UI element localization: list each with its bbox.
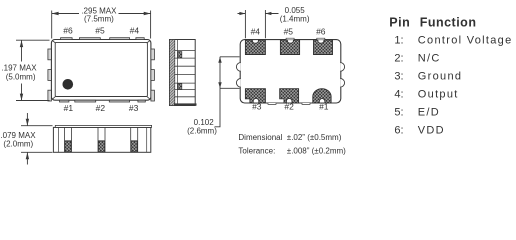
pad #1 (bottom view, hatched dome) xyxy=(313,89,331,103)
side view bottom metal band xyxy=(174,103,197,105)
svg-text:(5.0mm): (5.0mm) xyxy=(6,73,36,82)
front view pad 2 hatch xyxy=(98,141,104,152)
svg-text:#4: #4 xyxy=(130,26,140,36)
bottom view left edge castellation bumps xyxy=(236,63,240,88)
dimension .079 MAX arrows xyxy=(26,113,29,165)
svg-text:(2.6mm): (2.6mm) xyxy=(187,127,217,136)
svg-text:#5: #5 xyxy=(284,27,294,37)
svg-text:VDD: VDD xyxy=(418,125,445,137)
side view inner vertical line xyxy=(177,40,179,106)
bottom view top edge castellation bumps xyxy=(286,38,325,39)
svg-text:E/D: E/D xyxy=(418,107,440,119)
svg-text:5:: 5: xyxy=(394,107,403,119)
svg-text:#5: #5 xyxy=(95,26,105,36)
svg-text:#2: #2 xyxy=(96,103,106,113)
svg-text:±.02” (±0.5mm): ±.02” (±0.5mm) xyxy=(287,133,342,142)
svg-text:Dimensional: Dimensional xyxy=(238,133,282,142)
side view horizontal seam lines xyxy=(175,51,195,97)
svg-text:(2.0mm): (2.0mm) xyxy=(3,139,33,148)
front view pad channel 1 xyxy=(65,127,72,152)
dimension 0.102 extension lines xyxy=(220,57,240,89)
top view top edge ridge segments xyxy=(61,38,145,40)
bottom view bottom edge castellation bumps xyxy=(268,103,310,104)
front view body xyxy=(53,127,150,152)
svg-text:3:: 3: xyxy=(394,71,403,83)
dimension 0.055 extension lines xyxy=(245,10,265,38)
front view pad channel 3 xyxy=(131,127,138,152)
svg-text:1:: 1: xyxy=(394,35,403,47)
side view left hatched wall xyxy=(170,40,175,106)
svg-text:±.008” (±0.2mm): ±.008” (±0.2mm) xyxy=(287,147,346,156)
svg-text:#6: #6 xyxy=(316,27,326,37)
svg-text:Control Voltage: Control Voltage xyxy=(418,35,513,47)
pad #4 (bottom view, hatched) xyxy=(245,40,265,55)
front view left wall inner line xyxy=(58,127,60,152)
top view left castellation tabs xyxy=(48,49,52,101)
dimension .295 MAX dimension line and arrows xyxy=(52,12,151,15)
dimension .079 MAX extension lines xyxy=(21,126,53,153)
pin 1 index dot xyxy=(63,79,74,90)
dimension 0.102 dimension line, arrows and leader xyxy=(215,57,222,127)
svg-text:#3: #3 xyxy=(252,102,262,112)
svg-text:Ground: Ground xyxy=(418,71,463,83)
top view package outline xyxy=(51,40,150,101)
pad #6 (bottom view, hatched) xyxy=(314,40,333,55)
bottom view right edge castellation bumps xyxy=(340,63,344,88)
pad #3 (bottom view, hatched) xyxy=(245,89,265,103)
svg-text:#4: #4 xyxy=(251,27,261,37)
front view pad 3 hatch xyxy=(131,141,137,152)
dimension .197 MAX height extension lines xyxy=(16,40,50,100)
dimension 0.055 arrows xyxy=(238,12,279,15)
svg-text:N/C: N/C xyxy=(418,53,441,65)
front view right wall inner line xyxy=(146,127,148,152)
dimension .295 MAX width extension lines xyxy=(52,11,151,39)
top view inner lid outline xyxy=(55,42,147,96)
svg-text:.197 MAX: .197 MAX xyxy=(1,64,37,73)
top view right castellation tabs xyxy=(151,49,155,101)
svg-text:#2: #2 xyxy=(284,102,294,112)
svg-text:#3: #3 xyxy=(129,103,139,113)
svg-text:#1: #1 xyxy=(319,102,329,112)
dimension .197 MAX dimension line and arrows xyxy=(20,40,23,100)
svg-text:Function: Function xyxy=(420,15,477,29)
svg-text:Tolerance:: Tolerance: xyxy=(238,147,275,156)
svg-text:Pin: Pin xyxy=(389,15,410,29)
svg-text:#1: #1 xyxy=(64,103,74,113)
svg-text:(7.5mm): (7.5mm) xyxy=(84,14,114,23)
pad #2 (bottom view, hatched) xyxy=(280,89,299,103)
svg-text:2:: 2: xyxy=(394,53,403,65)
top view bottom edge ridge segments xyxy=(60,100,146,102)
svg-text:(1.4mm): (1.4mm) xyxy=(280,14,310,23)
svg-text:Output: Output xyxy=(418,89,459,101)
side view castellation pad lower xyxy=(178,84,182,90)
front view pad 1 hatch xyxy=(65,141,71,152)
front view lid slab xyxy=(55,125,151,127)
pad #5 (bottom view, hatched) xyxy=(280,40,299,55)
front view pad channel 2 xyxy=(98,127,105,152)
bottom view package outline xyxy=(240,40,341,103)
svg-text:#6: #6 xyxy=(63,26,73,36)
svg-text:4:: 4: xyxy=(394,89,403,101)
top view corner chamfers xyxy=(53,41,150,99)
side view castellation pad upper xyxy=(178,52,182,58)
svg-text:6:: 6: xyxy=(394,125,403,137)
side view body xyxy=(170,40,196,106)
